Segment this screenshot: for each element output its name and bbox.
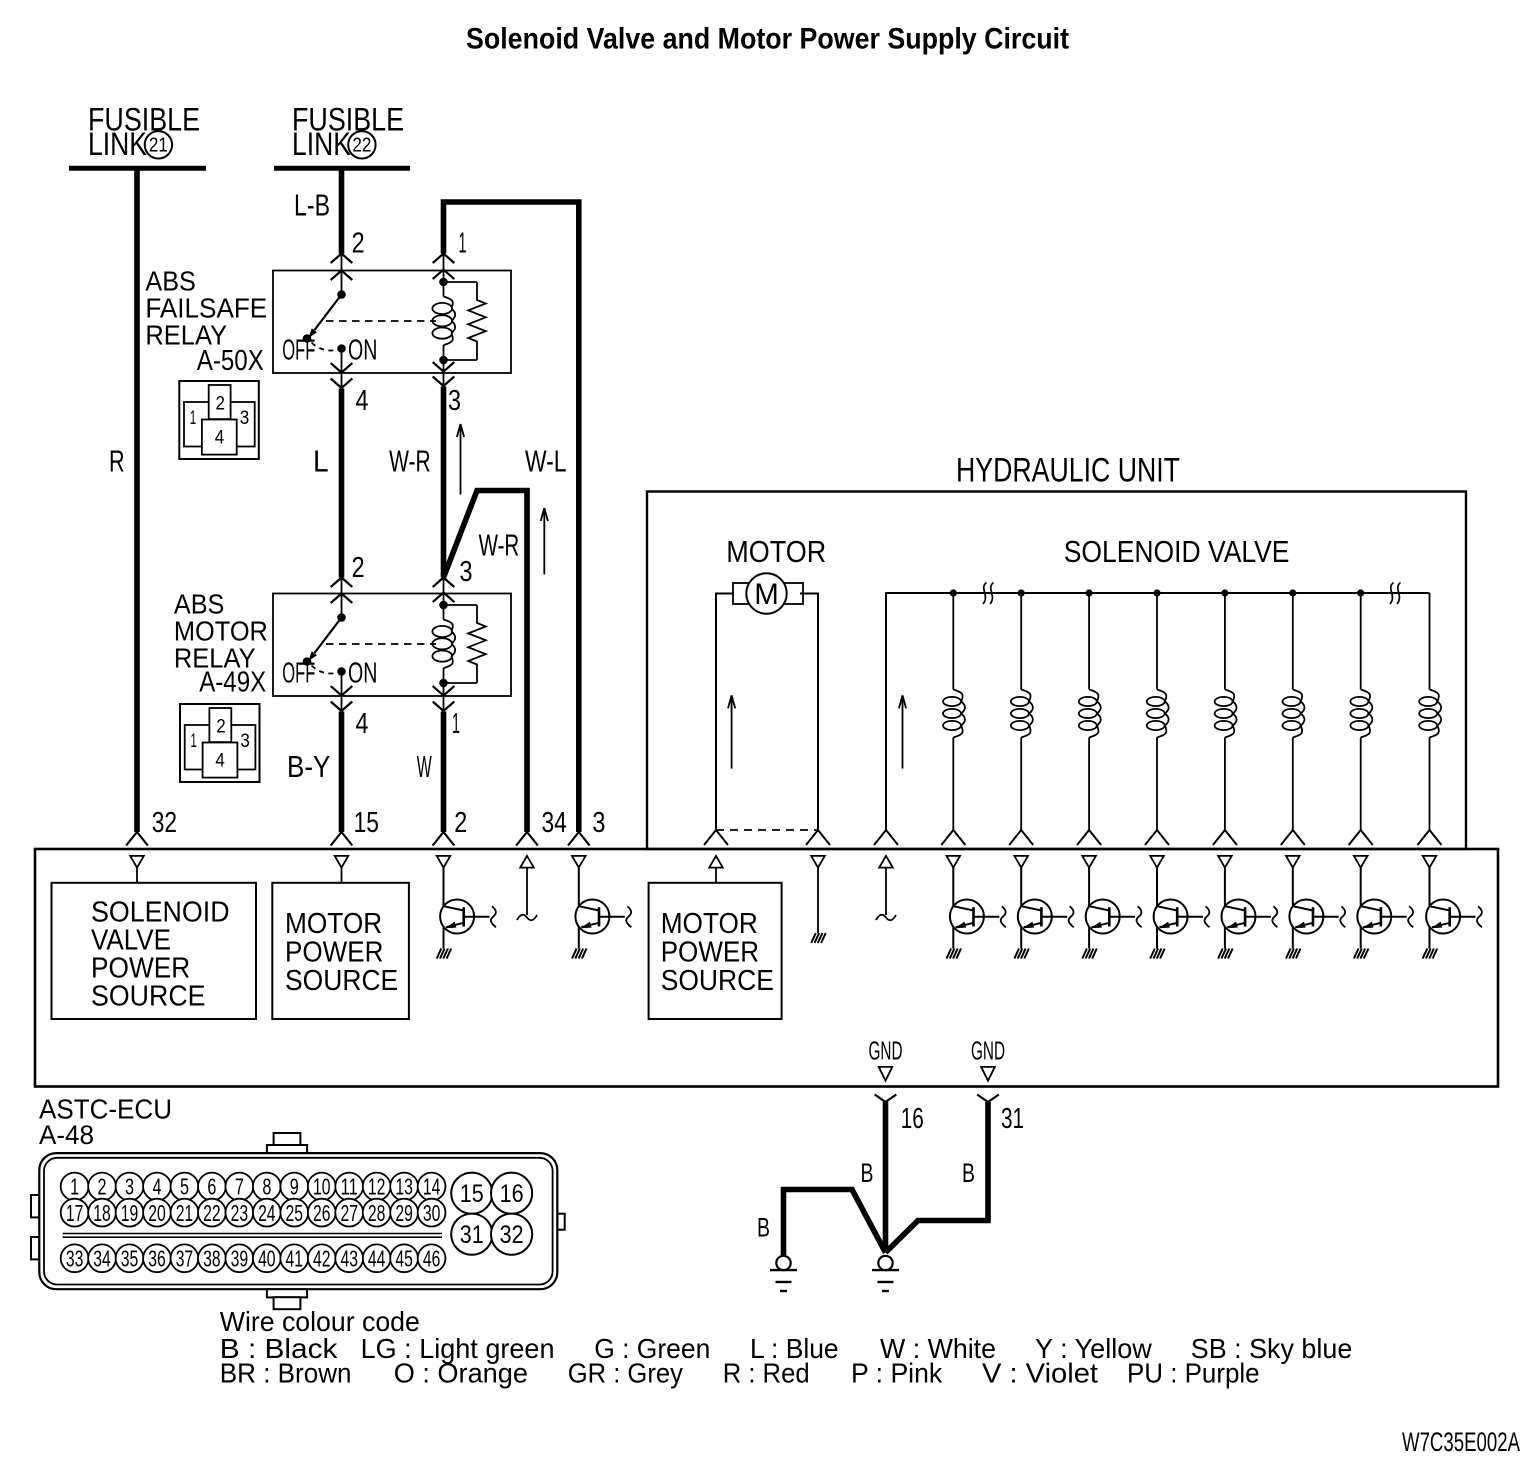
svg-text:SOURCE: SOURCE <box>661 965 774 997</box>
svg-text:22: 22 <box>203 1200 221 1226</box>
motor power source block 2 <box>649 883 782 1019</box>
failsafe relay switch common <box>337 290 346 299</box>
svg-text:20: 20 <box>148 1200 166 1226</box>
A-48 cavity 5 <box>171 1173 199 1201</box>
A-48 cavity 19 <box>116 1199 144 1227</box>
A-48 cavity 45 <box>390 1244 418 1272</box>
svg-text:43: 43 <box>340 1246 358 1272</box>
connector mark solenoid coil 6 <box>1281 830 1293 845</box>
svg-text:HYDRAULIC UNIT: HYDRAULIC UNIT <box>956 451 1180 489</box>
fusible link 21 label <box>88 102 200 163</box>
svg-text:14: 14 <box>423 1174 441 1200</box>
svg-text:29: 29 <box>395 1200 413 1226</box>
svg-text:7: 7 <box>235 1174 244 1200</box>
svg-text:3: 3 <box>460 556 473 588</box>
fusible link 22 label <box>292 102 404 163</box>
failsafe relay OFF-ON dashed throw <box>312 343 337 351</box>
A-48 cavity 20 <box>143 1199 171 1227</box>
svg-text:31: 31 <box>460 1221 484 1249</box>
svg-text:W-R: W-R <box>389 444 431 479</box>
connector mark solenoid coil 7 <box>1349 830 1361 845</box>
A-48 cavity 22 <box>198 1199 226 1227</box>
wire R (fusible link 21 to ECU pin 32) <box>134 168 140 832</box>
svg-text:Solenoid Valve and Motor Power: Solenoid Valve and Motor Power Supply Ci… <box>466 23 1069 56</box>
solenoid valve coil L2 <box>1011 589 1033 830</box>
connector mark motor ground <box>806 830 818 845</box>
solenoid valve coil L7 <box>1350 589 1372 830</box>
svg-text:5: 5 <box>180 1174 189 1200</box>
svg-text:2: 2 <box>352 552 365 584</box>
svg-text:O : Orange: O : Orange <box>394 1358 528 1389</box>
chassis ground (motor return) <box>811 933 816 943</box>
ECU pin 34 internal line <box>526 868 528 915</box>
svg-text:36: 36 <box>148 1246 166 1272</box>
svg-text:LINK: LINK <box>88 126 147 162</box>
connector mark solenoid feed <box>874 830 886 845</box>
solenoid valve coil L6 <box>1283 589 1305 830</box>
A-48 cavity 18 <box>88 1199 116 1227</box>
svg-text:B: B <box>861 1158 874 1188</box>
A-48 cavity 41 <box>280 1244 308 1272</box>
wire colour code legend <box>220 1306 1353 1389</box>
transistor Q4 (solenoid 2 driver) <box>1014 856 1073 959</box>
connector marks at failsafe relay pin 1 <box>433 254 444 264</box>
svg-text:W-R: W-R <box>479 528 520 563</box>
svg-text:V : Violet: V : Violet <box>982 1358 1098 1389</box>
svg-text:25: 25 <box>286 1200 304 1226</box>
A-48 cavity 1 <box>61 1173 89 1201</box>
svg-text:1: 1 <box>459 228 467 260</box>
svg-text:28: 28 <box>368 1200 386 1226</box>
svg-text:22: 22 <box>352 134 371 156</box>
svg-text:B-Y: B-Y <box>287 749 330 784</box>
motor relay ON contact <box>337 667 346 676</box>
svg-text:8: 8 <box>262 1174 271 1200</box>
svg-text:38: 38 <box>203 1246 221 1272</box>
svg-text:30: 30 <box>423 1200 441 1226</box>
A-48 cavity 32 <box>491 1214 532 1255</box>
wire L (failsafe pin 4 to motor relay pin 2) <box>339 389 345 578</box>
A-48 cavity 12 <box>363 1173 391 1201</box>
svg-text:W-L: W-L <box>525 444 567 479</box>
svg-text:4: 4 <box>215 751 225 772</box>
motor relay pin 1 connector marks <box>443 683 445 711</box>
ASTC-ECU box <box>35 849 1498 1087</box>
transistor Q8 (solenoid 6 driver) <box>1286 856 1345 959</box>
solenoid feed internal line <box>885 868 887 915</box>
motor ground pin triangle <box>811 856 825 868</box>
A-48 cavity 31 <box>451 1214 492 1255</box>
transistor Q2 (ECU pin 3 driver) <box>572 856 631 959</box>
bus break mark left <box>983 583 987 605</box>
svg-text:R: R <box>109 444 125 479</box>
svg-text:R : Red: R : Red <box>723 1358 810 1389</box>
earth ground symbol (center) <box>872 1256 899 1291</box>
connector mark at ECU pin 34 <box>516 832 527 846</box>
svg-text:W7C35E002A: W7C35E002A <box>1402 1427 1520 1457</box>
svg-text:39: 39 <box>231 1246 249 1272</box>
A-48 cavity 44 <box>363 1244 391 1272</box>
transistor Q3 (solenoid 1 driver) <box>947 856 1006 959</box>
svg-text:ON: ON <box>348 334 377 366</box>
hydraulic unit internal dashed tie <box>716 829 818 831</box>
A-48 cavity 14 <box>418 1173 446 1201</box>
A-48 cavity 25 <box>280 1199 308 1227</box>
flow arrow in motor branch <box>731 695 733 768</box>
svg-text:2: 2 <box>216 393 226 414</box>
svg-text:2: 2 <box>216 716 226 737</box>
transistor Q1 (ECU pin 2 driver) <box>437 856 496 959</box>
solenoid feed wire <box>886 593 1430 830</box>
A-48 cavity 2 <box>88 1173 116 1201</box>
connector mark at ECU pin 2 <box>433 832 444 846</box>
svg-text:2: 2 <box>454 807 467 839</box>
svg-text:15: 15 <box>354 807 379 839</box>
A-48 cavity 9 <box>280 1173 308 1201</box>
motor relay coupling dashed line <box>326 643 436 645</box>
svg-text:32: 32 <box>152 807 177 839</box>
motor relay coil <box>432 601 455 688</box>
svg-text:13: 13 <box>395 1174 413 1200</box>
svg-text:A-48: A-48 <box>39 1120 94 1150</box>
svg-text:ABS: ABS <box>145 265 195 296</box>
svg-text:21: 21 <box>176 1200 194 1226</box>
connector mark solenoid coil 1 <box>941 830 953 845</box>
motor relay OFF contact <box>303 657 312 666</box>
A-48 cavity 8 <box>253 1173 281 1201</box>
A-48 cavity 4 <box>143 1173 171 1201</box>
connector layout icon A-49X <box>180 704 260 782</box>
svg-text:19: 19 <box>121 1200 139 1226</box>
svg-text:44: 44 <box>368 1246 386 1272</box>
svg-text:1: 1 <box>190 731 197 752</box>
A-48 cavity 40 <box>253 1244 281 1272</box>
svg-text:17: 17 <box>66 1200 84 1226</box>
svg-text:23: 23 <box>231 1200 249 1226</box>
svg-text:2: 2 <box>352 228 365 260</box>
A-48 cavity 35 <box>116 1244 144 1272</box>
A-48 cavity 37 <box>171 1244 199 1272</box>
svg-text:MOTOR: MOTOR <box>285 908 382 940</box>
A-48 cavity 26 <box>308 1199 336 1227</box>
A-48 cavity 30 <box>418 1199 446 1227</box>
A-48 cavity 10 <box>308 1173 336 1201</box>
svg-text:34: 34 <box>93 1246 111 1272</box>
A-48 cavity 28 <box>363 1199 391 1227</box>
wire W-L (failsafe relay pin 1 loop down to ECU pin 3) <box>444 202 579 832</box>
connector mark at ECU pin 32 <box>126 832 137 846</box>
A-48 cavity 6 <box>198 1173 226 1201</box>
connector marks at failsafe relay pin 2 <box>331 254 342 264</box>
transistor Q5 (solenoid 3 driver) <box>1082 856 1141 959</box>
flow arrow on wire W-R <box>460 424 462 495</box>
svg-text:46: 46 <box>423 1246 441 1272</box>
A-48 cavity 42 <box>308 1244 336 1272</box>
motor ground lead <box>800 594 818 831</box>
svg-text:15: 15 <box>460 1180 484 1208</box>
svg-text:4: 4 <box>356 708 369 740</box>
connector mark solenoid coil 2 <box>1009 830 1021 845</box>
A-48 cavity 7 <box>225 1173 253 1201</box>
svg-text:41: 41 <box>286 1246 304 1272</box>
svg-text:12: 12 <box>368 1174 386 1200</box>
failsafe relay coil suppression resistor <box>444 282 486 360</box>
connector mark at ECU pin 3 <box>568 832 579 846</box>
svg-text:26: 26 <box>313 1200 331 1226</box>
ABS failsafe relay A-50X label <box>145 265 267 377</box>
fusible link 22 bus bar <box>274 166 410 171</box>
svg-text:1: 1 <box>70 1174 79 1200</box>
connector mark solenoid coil 3 <box>1077 830 1089 845</box>
svg-text:21: 21 <box>149 134 168 156</box>
wire B-Y (motor relay pin 4 to ECU pin 15) <box>339 712 345 833</box>
svg-text:BR : Brown: BR : Brown <box>220 1358 352 1389</box>
failsafe relay pin 3 connector marks <box>443 360 445 388</box>
A-48 cavity 3 <box>116 1173 144 1201</box>
fusible link 21 bus bar <box>69 166 206 171</box>
svg-text:4: 4 <box>215 428 225 449</box>
motor relay coil suppression resistor <box>444 605 486 683</box>
svg-text:33: 33 <box>66 1246 84 1272</box>
ECU GND pin 31 triangle <box>981 1067 995 1081</box>
motor relay switch common <box>337 613 346 622</box>
A-48 cavity 17 <box>61 1199 89 1227</box>
svg-text:18: 18 <box>93 1200 111 1226</box>
svg-text:45: 45 <box>395 1246 413 1272</box>
motor relay box <box>273 594 511 697</box>
svg-text:2: 2 <box>98 1174 107 1200</box>
svg-text:16: 16 <box>901 1103 924 1135</box>
wire W-R (failsafe pin 3 to motor relay pin 3) <box>441 387 447 578</box>
wire L-B (fusible link 22 to failsafe relay pin 2) <box>339 168 345 254</box>
solenoid valve coil L4 <box>1147 589 1169 830</box>
failsafe relay box <box>273 271 511 374</box>
transistor Q9 (solenoid 7 driver) <box>1354 856 1413 959</box>
svg-text:42: 42 <box>313 1246 331 1272</box>
A-48 cavity 33 <box>61 1244 89 1272</box>
wire W (motor relay pin 1 to ECU pin 2) <box>441 712 447 833</box>
motor relay switch arm (OFF position) <box>315 618 342 654</box>
failsafe relay coupling dashed line <box>326 320 436 322</box>
bus break mark right <box>1390 583 1394 605</box>
svg-text:3: 3 <box>240 408 250 429</box>
A-48 cavity 34 <box>88 1244 116 1272</box>
connector mark solenoid coil 8 <box>1418 830 1430 845</box>
svg-text:4: 4 <box>356 385 369 417</box>
svg-text:9: 9 <box>290 1174 299 1200</box>
solenoid valve power source block <box>52 883 257 1019</box>
svg-text:A-50X: A-50X <box>197 345 264 377</box>
A-48 cavity 24 <box>253 1199 281 1227</box>
transistor Q6 (solenoid 4 driver) <box>1150 856 1209 959</box>
svg-text:OFF: OFF <box>282 657 315 689</box>
earth ground symbol (left) <box>770 1256 797 1291</box>
svg-text:11: 11 <box>340 1174 358 1200</box>
ground wire B from pin 31 <box>886 1102 989 1253</box>
A-48 cavity 39 <box>225 1244 253 1272</box>
A-48 cavity 46 <box>418 1244 446 1272</box>
ABS motor relay A-49X label <box>174 589 268 699</box>
motor relay pin 3 connector marks <box>433 578 444 588</box>
solenoid valve coil L5 <box>1215 589 1237 830</box>
svg-text:40: 40 <box>258 1246 276 1272</box>
A-48 cavity 16 <box>491 1173 532 1214</box>
connector mark motor supply <box>704 830 716 845</box>
connector mark solenoid coil 5 <box>1213 830 1225 845</box>
failsafe relay pin 4 connector marks <box>341 349 343 389</box>
failsafe relay coil <box>432 278 455 365</box>
svg-text:GND: GND <box>971 1038 1005 1066</box>
svg-text:B: B <box>757 1213 770 1243</box>
A-48 connector face drawing <box>31 1133 565 1309</box>
svg-text:31: 31 <box>1001 1103 1024 1135</box>
flow arrow on wire W-L <box>543 508 545 575</box>
connector mark at ECU pin 31 <box>977 1095 988 1103</box>
motor ground internal wire <box>817 868 819 933</box>
A-48 cavity 13 <box>390 1173 418 1201</box>
svg-text:SOLENOID VALVE: SOLENOID VALVE <box>1064 534 1290 569</box>
svg-text:GR : Grey: GR : Grey <box>568 1358 683 1389</box>
A-48 cavity 21 <box>171 1199 199 1227</box>
A-48 cavity 23 <box>225 1199 253 1227</box>
svg-text:OFF: OFF <box>282 334 315 366</box>
svg-text:LINK: LINK <box>292 126 351 162</box>
motor relay pin 4 connector marks <box>341 672 343 712</box>
svg-text:24: 24 <box>258 1200 276 1226</box>
svg-text:1: 1 <box>452 708 460 740</box>
svg-text:W: W <box>417 749 432 784</box>
A-48 cavity 43 <box>335 1244 363 1272</box>
svg-text:GND: GND <box>869 1038 903 1066</box>
svg-text:M: M <box>754 578 779 611</box>
pump motor M1 <box>733 573 803 613</box>
svg-text:A-49X: A-49X <box>199 667 266 699</box>
A-48 cavity 36 <box>143 1244 171 1272</box>
motor supply pin output triangle <box>709 856 723 868</box>
svg-text:P : Pink: P : Pink <box>851 1358 943 1389</box>
wire W-R branch (motor relay pin 3 to ECU pin 34) <box>444 491 528 833</box>
svg-text:1: 1 <box>190 408 197 429</box>
svg-text:3: 3 <box>240 731 250 752</box>
svg-text:3: 3 <box>448 385 461 417</box>
svg-text:16: 16 <box>500 1180 524 1208</box>
solenoid valve coil L3 <box>1079 589 1101 830</box>
motor relay OFF-ON dashed throw <box>312 666 337 674</box>
svg-text:3: 3 <box>592 807 605 839</box>
svg-text:37: 37 <box>176 1246 194 1272</box>
svg-text:35: 35 <box>121 1246 139 1272</box>
ECU pin 15 input triangle <box>335 856 349 868</box>
svg-text:SOURCE: SOURCE <box>285 965 398 997</box>
svg-text:3: 3 <box>125 1174 134 1200</box>
svg-text:L-B: L-B <box>294 188 330 223</box>
svg-text:B: B <box>962 1158 975 1188</box>
svg-text:MOTOR: MOTOR <box>661 908 758 940</box>
svg-text:L: L <box>313 444 329 479</box>
A-48 cavity 29 <box>390 1199 418 1227</box>
ground wire B from pin 16 <box>883 1102 889 1253</box>
svg-text:SOURCE: SOURCE <box>91 981 206 1013</box>
svg-text:6: 6 <box>207 1174 216 1200</box>
ECU pin 34 output triangle <box>520 856 534 868</box>
connector mark at ECU pin 16 <box>875 1095 886 1103</box>
motor relay pin 2 connector marks <box>331 578 342 588</box>
connector layout icon A-50X <box>179 381 258 459</box>
hydraulic unit box <box>647 492 1466 850</box>
svg-text:POWER: POWER <box>661 937 759 969</box>
connector mark solenoid coil 4 <box>1145 830 1157 845</box>
solenoid valve coil L8 <box>1419 593 1441 830</box>
transistor Q7 (solenoid 5 driver) <box>1218 856 1277 959</box>
svg-text:34: 34 <box>542 807 567 839</box>
failsafe relay switch arm (OFF position) <box>315 295 342 331</box>
ground wire B left branch <box>784 1190 886 1257</box>
flow arrow in solenoid feed <box>902 695 904 768</box>
solenoid valve coil L1 <box>943 589 965 830</box>
ECU pin 32 input triangle <box>130 856 144 868</box>
ECU GND pin 16 triangle <box>879 1067 893 1081</box>
svg-text:PU : Purple: PU : Purple <box>1127 1358 1260 1389</box>
A-48 cavity 38 <box>198 1244 226 1272</box>
A-48 cavity divider <box>63 1233 442 1235</box>
svg-text:4: 4 <box>152 1174 161 1200</box>
failsafe relay ON contact <box>337 344 346 353</box>
A-48 cavity 11 <box>335 1173 363 1201</box>
A-48 cavity 15 <box>451 1173 492 1214</box>
connector mark at ECU pin 15 <box>331 832 342 846</box>
motor power source block 1 <box>272 883 409 1019</box>
A-48 cavity 27 <box>335 1199 363 1227</box>
svg-text:32: 32 <box>500 1221 524 1249</box>
svg-text:MOTOR: MOTOR <box>726 534 826 569</box>
motor supply lead <box>716 594 733 831</box>
transistor Q10 (solenoid 8 driver) <box>1423 856 1482 959</box>
svg-text:10: 10 <box>313 1174 331 1200</box>
failsafe relay OFF contact <box>303 334 312 343</box>
solenoid feed pin output triangle <box>879 856 893 868</box>
svg-text:ON: ON <box>348 657 377 689</box>
svg-text:POWER: POWER <box>285 937 383 969</box>
svg-text:27: 27 <box>340 1200 358 1226</box>
